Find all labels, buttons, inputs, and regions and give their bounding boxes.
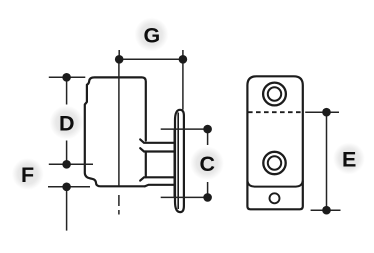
dimension E: reference lines, vertical, dots bbox=[305, 112, 340, 210]
dimension D dot bbox=[62, 73, 71, 82]
label E halo bbox=[333, 143, 365, 175]
dimension F dots bbox=[62, 160, 71, 191]
right view: flange plate front outline bbox=[247, 76, 302, 209]
label C halo bbox=[190, 146, 224, 180]
right view: dashed hole axis line bbox=[248, 111, 303, 113]
svg-text:F: F bbox=[21, 163, 34, 187]
right view: top mounting hole bbox=[263, 83, 286, 106]
dimension G end dots bbox=[115, 55, 187, 64]
right view: lower mounting hole bbox=[263, 152, 285, 174]
centerline (axis) of left view bbox=[118, 59, 120, 214]
svg-text:D: D bbox=[59, 112, 75, 136]
right view: step line above bottom strip bbox=[247, 181, 302, 187]
label F halo bbox=[12, 158, 44, 190]
svg-text:E: E bbox=[342, 148, 356, 172]
dimension G: line, extensions bbox=[119, 50, 183, 110]
upper tube/pin between body and flange boss bbox=[140, 139, 174, 151]
left view: housing body outline bbox=[85, 77, 146, 186]
label D halo bbox=[50, 106, 84, 140]
svg-text:G: G bbox=[144, 24, 161, 48]
flange boss (hub) side line bbox=[174, 129, 176, 198]
label G halo bbox=[135, 18, 169, 52]
svg-text:C: C bbox=[200, 152, 216, 176]
right view: small bottom hole bbox=[270, 193, 280, 203]
dimension E dots bbox=[322, 108, 331, 215]
flange plate inner face line bbox=[177, 113, 179, 210]
flange plate (side view, rounded caps) bbox=[175, 110, 184, 212]
lower tube/pin between body and flange boss bbox=[140, 177, 174, 186]
dimension C: extension lines across flange, vertical, dots bbox=[161, 129, 208, 197]
dimension D: top reference line and vertical bbox=[49, 77, 86, 164]
dimension C dots bbox=[203, 125, 212, 202]
dimension F: two reference lines with dots and tails bbox=[48, 164, 93, 230]
